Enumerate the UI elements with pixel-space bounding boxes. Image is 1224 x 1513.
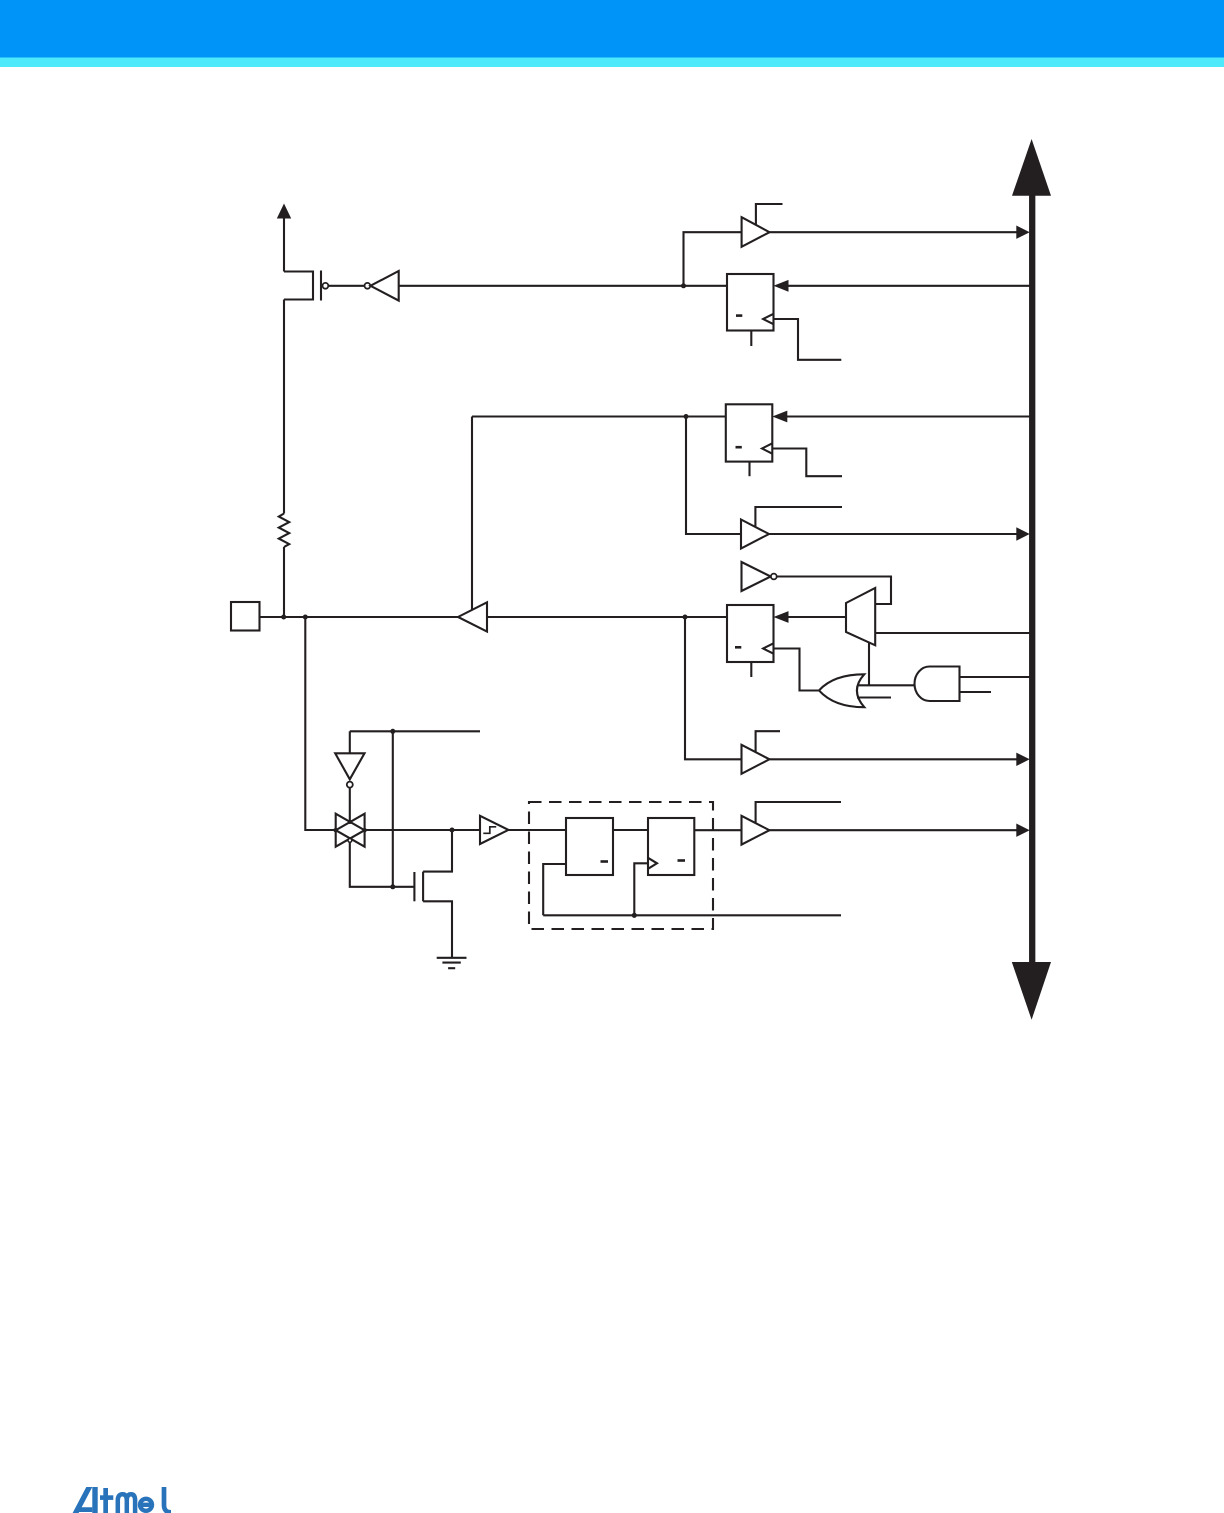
- wire PUExn bottom stub: [750, 331, 752, 347]
- wire data bus to mux lower input: [875, 632, 1029, 634]
- wire SLEEP line: [350, 730, 480, 732]
- wire pad to driver: [260, 616, 459, 618]
- transistor Q2 clamp NMOS: [390, 830, 452, 958]
- wire L1 to L2: [613, 829, 648, 831]
- wire net PUE (inverter input to PUExn register): [399, 285, 727, 287]
- transmission gate TG1: [334, 814, 367, 847]
- OR gate U6: [819, 674, 864, 707]
- driver buffer U8 (pad driver): [458, 602, 487, 631]
- AND gate U7: [915, 667, 960, 702]
- inverter U4 (PORTxn feedback): [742, 562, 777, 591]
- junction pad-switch: [303, 615, 308, 620]
- wire U3 output to data bus: [769, 527, 1030, 540]
- wire AND output to OR input and mux select: [857, 684, 916, 686]
- wire junction up to buffer U2 input: [684, 232, 742, 286]
- latch L1: [566, 818, 613, 875]
- wire schmitt output to synchronizer: [508, 829, 566, 831]
- junction PUE: [681, 283, 686, 288]
- ground: [437, 958, 467, 968]
- wire mux select: [868, 642, 870, 686]
- wire mux output to PORTxn D input: [774, 611, 847, 623]
- wire DDxn clock stub: [772, 449, 842, 477]
- wire NMOS drain node to schmitt input: [452, 829, 480, 831]
- inverter U9 (sleep control): [335, 731, 364, 822]
- wire DDxn bottom stub: [748, 462, 750, 477]
- tri-state buffer U11 (read PORTxn): [742, 731, 781, 774]
- transistor Q1 pull-up PMOS: [284, 271, 328, 301]
- wire PMOS gate to inverter: [328, 285, 364, 287]
- wire clk I/O line: [543, 914, 841, 916]
- wire U4 output to mux input: [777, 577, 891, 605]
- wire pad branch down to analog switch: [305, 617, 335, 830]
- tri-state buffer U12 (read pin): [742, 802, 842, 845]
- schmitt trigger U10: [480, 816, 508, 844]
- junction SLEEP: [390, 729, 395, 734]
- wire U2 output to data bus: [770, 226, 1030, 239]
- VCC supply arrow: [277, 204, 291, 272]
- wire data bus to AND input: [960, 676, 1030, 678]
- register PORTxn: [727, 605, 774, 662]
- wire data bus to PUExn D input: [774, 280, 1030, 292]
- wire TG1 control to NMOS gate: [350, 842, 393, 887]
- junction clk I/O: [632, 913, 637, 918]
- wire data bus to DDxn D input: [772, 411, 1029, 423]
- wire AND lower input stub: [960, 691, 992, 693]
- wire SLEEP to NMOS gate: [392, 731, 394, 887]
- register PUExn: [727, 274, 774, 331]
- junction NMOS drain: [450, 828, 455, 833]
- wire PORTxn clock to OR gate: [774, 649, 820, 691]
- wire TG1 to NMOS drain node: [365, 829, 452, 831]
- wire L2 output to buffer U12: [694, 829, 741, 831]
- wire U11 output to data bus: [769, 753, 1029, 766]
- wire PUExn clock stub: [774, 319, 842, 360]
- wire U12 output to data bus: [769, 824, 1029, 837]
- pad Pxn: [231, 602, 260, 631]
- wire OR gate lower input stub: [857, 696, 891, 698]
- synchronizer dashed box: [529, 802, 713, 929]
- wire L2 clock: [634, 863, 648, 915]
- wire PORT junction down to buffer U11: [685, 617, 742, 759]
- page header bar: [0, 0, 1224, 58]
- data bus: [1012, 139, 1051, 1020]
- wire net DD (DDxn register to output enable): [472, 415, 726, 417]
- inverter U1 pull-up enable: [365, 271, 399, 301]
- resistor RPU: [279, 300, 289, 618]
- wire PORTxn bottom stub: [750, 662, 752, 677]
- tri-state buffer U3 (read DDxn): [741, 507, 842, 549]
- wire DD down to driver enable: [471, 417, 473, 610]
- Atmel logo: [70, 1487, 171, 1513]
- register DDxn: [726, 404, 773, 461]
- junction DD: [684, 414, 689, 419]
- wire net PORT (PORTxn output to driver U8): [487, 616, 727, 618]
- tri-state buffer U2 (read PUExn): [742, 204, 783, 247]
- latch L2: [648, 818, 694, 875]
- junction pad-resistor: [281, 615, 286, 620]
- junction PORT: [683, 615, 688, 620]
- mux U5: [846, 588, 875, 645]
- wire L1 clock: [543, 864, 566, 915]
- wire DD junction down to buffer U3: [686, 417, 741, 535]
